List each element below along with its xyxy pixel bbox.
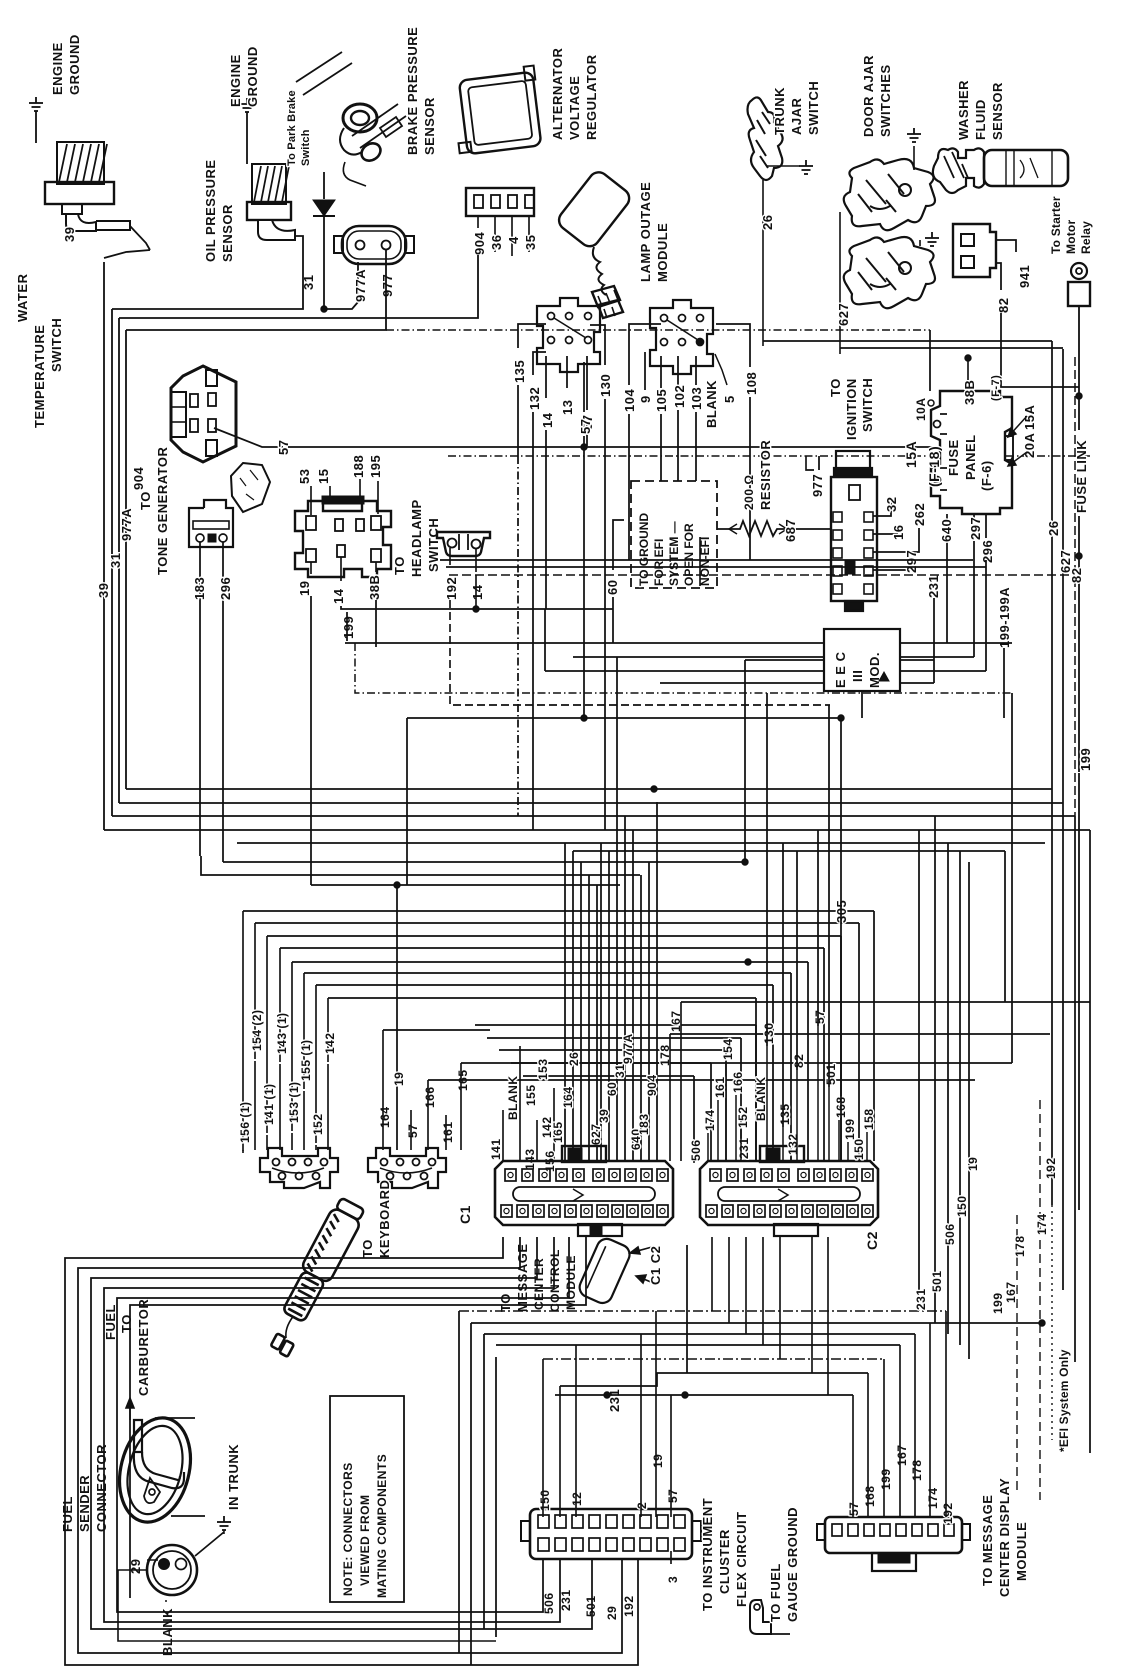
- svg-text:297: 297: [904, 550, 919, 573]
- labels 941 / 82: [996, 240, 1016, 252]
- svg-text:506: 506: [943, 1223, 957, 1245]
- door ajar switch 2: [844, 237, 935, 308]
- fuel gauge ground symbol: [750, 1600, 771, 1634]
- svg-text:15A: 15A: [903, 441, 919, 468]
- EEC wires: [745, 659, 824, 661]
- svg-text:TO MESSAGE: TO MESSAGE: [980, 1495, 995, 1586]
- svg-text:IGNITION: IGNITION: [844, 378, 859, 440]
- lamp outage module: [555, 168, 633, 250]
- svg-text:FUEL: FUEL: [60, 1496, 75, 1532]
- center vertical bundle: [564, 843, 566, 1161]
- connector C1: [495, 1161, 673, 1225]
- svg-text:192: 192: [444, 577, 459, 600]
- svg-text:199-199A: 199-199A: [997, 587, 1012, 648]
- svg-text:150: 150: [538, 1489, 552, 1511]
- C1/C2 pointer wedge: [576, 1236, 632, 1306]
- svg-text:39: 39: [62, 227, 77, 242]
- svg-text:19: 19: [297, 581, 312, 596]
- svg-text:977: 977: [810, 474, 825, 497]
- wire 38B down: [375, 600, 377, 647]
- washer connector 2-pin: [953, 224, 996, 277]
- svg-text:296: 296: [980, 540, 995, 563]
- mesh horizontals mid: [201, 856, 640, 875]
- svg-text:KEYBOARD: KEYBOARD: [377, 1180, 392, 1258]
- svg-text:155 (1): 155 (1): [299, 1039, 313, 1081]
- svg-text:192: 192: [1044, 1157, 1058, 1179]
- water temperature switch sensor body: [45, 142, 130, 231]
- diode (park brake): [323, 172, 325, 199]
- door ajar switch 1: [844, 159, 935, 230]
- keyboard cable: [261, 1196, 367, 1358]
- svg-text:FUSE LINK: FUSE LINK: [1074, 440, 1089, 513]
- svg-text:14: 14: [331, 588, 346, 604]
- svg-text:904: 904: [472, 232, 487, 255]
- svg-text:*EFI System Only: *EFI System Only: [1057, 1349, 1071, 1452]
- svg-text:31: 31: [108, 553, 123, 568]
- svg-text:39: 39: [597, 1109, 611, 1123]
- svg-text:BLANK: BLANK: [160, 1608, 175, 1656]
- svg-text:3: 3: [666, 1576, 680, 1583]
- svg-text:977A: 977A: [353, 269, 368, 302]
- svg-text:WATER: WATER: [15, 273, 30, 322]
- 231 vertical link: [686, 1245, 688, 1373]
- svg-text:501: 501: [584, 1595, 598, 1617]
- svg-text:14: 14: [470, 584, 485, 600]
- svg-text:199: 199: [991, 1292, 1005, 1314]
- svg-text:57: 57: [847, 1502, 861, 1516]
- svg-text:To Park Brake: To Park Brake: [286, 90, 298, 166]
- svg-text:26: 26: [1046, 521, 1061, 536]
- svg-text:904: 904: [645, 1074, 659, 1096]
- fuel sender wire to right: [118, 1570, 496, 1641]
- svg-text:FUSE: FUSE: [946, 439, 961, 476]
- EEC III module: [824, 629, 900, 691]
- fuse link component: [1071, 263, 1087, 279]
- svg-text:TO: TO: [119, 1314, 134, 1333]
- svg-text:167: 167: [1004, 1281, 1018, 1303]
- svg-text:135: 135: [778, 1103, 792, 1125]
- wire 977: [126, 250, 386, 330]
- labels 53 15 188 195: [310, 486, 312, 515]
- junction dot 14: [473, 606, 479, 612]
- svg-text:Relay: Relay: [1079, 221, 1093, 254]
- fuse panel body: [931, 391, 1012, 514]
- wire 19 down: [310, 596, 312, 885]
- svg-text:102: 102: [672, 385, 687, 408]
- svg-text:153 (1): 153 (1): [287, 1081, 301, 1123]
- svg-text:501: 501: [930, 1270, 944, 1292]
- svg-text:199: 199: [843, 1118, 857, 1140]
- labels 904 36 4 35: [477, 216, 479, 228]
- ground: [799, 160, 813, 174]
- alternator connector 4-pin: [466, 188, 534, 216]
- ignition switch connector: [831, 451, 877, 611]
- svg-text:WASHER: WASHER: [956, 80, 971, 140]
- svg-text:ENGINE: ENGINE: [228, 54, 243, 107]
- C2 bottoms down to rows: [711, 1237, 713, 1311]
- svg-text:130: 130: [762, 1022, 776, 1044]
- svg-text:OPEN FOR: OPEN FOR: [682, 523, 696, 586]
- fuel pipe: [134, 1420, 142, 1452]
- relay connector 1: [537, 298, 600, 372]
- wire 26/627/82 horizontals to right edge: [440, 559, 973, 561]
- dashed box: to ground for EFI system: [631, 481, 717, 588]
- wire 904: [119, 255, 478, 318]
- right edge risers down: [1089, 830, 1091, 1453]
- svg-text:31: 31: [613, 1064, 627, 1078]
- svg-text:Motor: Motor: [1064, 220, 1078, 254]
- svg-text:60: 60: [605, 580, 620, 595]
- svg-text:192: 192: [941, 1502, 955, 1524]
- label 3 stub: [670, 1551, 672, 1564]
- svg-text:SENSOR: SENSOR: [220, 204, 235, 262]
- svg-text:TO: TO: [828, 378, 843, 397]
- svg-text:16: 16: [891, 525, 906, 540]
- svg-text:DOOR AJAR: DOOR AJAR: [861, 55, 876, 137]
- svg-text:AJAR: AJAR: [789, 97, 804, 135]
- svg-text:130: 130: [598, 374, 613, 397]
- svg-text:161: 161: [713, 1076, 727, 1098]
- staircase left drops to keyboard connectors: [242, 911, 244, 1151]
- hexagon blob: [231, 463, 270, 512]
- tone generator 2-pin connector: [189, 500, 233, 547]
- svg-text:174: 174: [703, 1109, 717, 1131]
- svg-text:ENGINE: ENGINE: [50, 42, 65, 95]
- svg-text:(F-7): (F-7): [990, 375, 1002, 401]
- svg-text:38B: 38B: [367, 575, 382, 600]
- keyboard conn2 wire drops: [382, 1030, 384, 1150]
- svg-text:296: 296: [218, 577, 233, 600]
- svg-text:26: 26: [567, 1052, 581, 1066]
- svg-text:132: 132: [527, 387, 542, 410]
- svg-text:154 (2): 154 (2): [250, 1009, 264, 1051]
- svg-text:231: 231: [737, 1137, 751, 1159]
- relay 2 labels 104 9 105 102 103 BLANK 5 108: [629, 324, 661, 385]
- wire bus: left risers turning right: [104, 829, 1090, 831]
- svg-text:156 (1): 156 (1): [238, 1101, 252, 1143]
- svg-text:BLANK: BLANK: [506, 1076, 520, 1121]
- wire 31: [295, 236, 303, 295]
- wire 199 dashdot: [346, 612, 348, 641]
- right labeled long verticals: [918, 830, 920, 1311]
- svg-text:104: 104: [622, 389, 637, 412]
- ground (trunk ajar): [766, 165, 800, 167]
- relay connector 2: [650, 300, 713, 374]
- connector C2: [700, 1161, 878, 1225]
- svg-text:231: 231: [914, 1288, 928, 1310]
- dots bottom rows: [1039, 1320, 1045, 1326]
- svg-text:5: 5: [722, 395, 737, 403]
- oil pressure sensor body: [247, 164, 295, 240]
- svg-text:165: 165: [551, 1121, 565, 1143]
- svg-text:SENDER: SENDER: [77, 1475, 92, 1532]
- svg-text:2: 2: [635, 1502, 649, 1509]
- ground (door 1): [913, 146, 915, 170]
- svg-text:BLANK: BLANK: [704, 380, 719, 428]
- message display connector: [825, 1517, 962, 1553]
- svg-text:627: 627: [836, 303, 851, 326]
- left bus riser 39: [103, 262, 105, 830]
- svg-text:168: 168: [863, 1485, 877, 1507]
- wire 26 + label: [762, 180, 764, 346]
- svg-text:199: 199: [341, 616, 356, 639]
- svg-text:BRAKE PRESSURE: BRAKE PRESSURE: [405, 27, 420, 155]
- svg-text:178: 178: [1013, 1235, 1027, 1257]
- svg-text:29: 29: [605, 1606, 619, 1620]
- svg-text:506: 506: [689, 1139, 703, 1161]
- C1 bottom to left loop wires: [65, 1237, 638, 1665]
- row left drops: [458, 1311, 460, 1653]
- arrow up fuel: [126, 1398, 134, 1420]
- svg-text:(F-6): (F-6): [979, 460, 994, 491]
- svg-text:MOD.: MOD.: [867, 652, 882, 688]
- svg-text:CONTROL: CONTROL: [548, 1249, 562, 1312]
- alternator voltage regulator body: [450, 66, 543, 156]
- svg-text:9: 9: [638, 395, 653, 403]
- wire 14b to junction: [475, 575, 477, 609]
- svg-text:627: 627: [589, 1123, 603, 1145]
- svg-text:199: 199: [879, 1468, 893, 1490]
- svg-text:132: 132: [786, 1133, 800, 1155]
- svg-text:MATING COMPONENTS: MATING COMPONENTS: [375, 1454, 389, 1598]
- trunk ajar switch blob: [748, 97, 783, 180]
- svg-text:82: 82: [996, 298, 1011, 313]
- svg-text:CONNECTOR: CONNECTOR: [94, 1444, 109, 1532]
- svg-text:GAUGE GROUND: GAUGE GROUND: [785, 1507, 800, 1622]
- svg-text:SYSTEM —: SYSTEM —: [667, 521, 681, 586]
- svg-text:164: 164: [561, 1086, 575, 1108]
- svg-text:BLANK: BLANK: [754, 1077, 768, 1122]
- svg-text:MODULE: MODULE: [1014, 1522, 1029, 1581]
- svg-text:14: 14: [540, 412, 555, 428]
- svg-text:82: 82: [792, 1054, 806, 1068]
- svg-text:SENSOR: SENSOR: [422, 97, 437, 155]
- svg-text:Switch: Switch: [300, 129, 312, 166]
- washer fluid sensor body: [933, 148, 984, 193]
- svg-text:15: 15: [316, 469, 331, 484]
- svg-text:TEMPERATURE: TEMPERATURE: [32, 325, 47, 428]
- extra left vertical: [130, 1237, 586, 1598]
- ground: [925, 232, 939, 246]
- svg-text:E E C: E E C: [833, 651, 848, 688]
- C1 top pin wires with labels: [502, 1110, 504, 1161]
- upper staircase rows: [243, 910, 874, 912]
- svg-text:183: 183: [637, 1113, 651, 1135]
- svg-text:19: 19: [966, 1157, 980, 1171]
- junction dot wire 57: [581, 444, 587, 450]
- ground: [907, 128, 921, 142]
- svg-text:LAMP OUTAGE: LAMP OUTAGE: [638, 182, 653, 282]
- svg-text:167: 167: [895, 1444, 909, 1466]
- svg-text:26: 26: [760, 215, 775, 230]
- svg-text:MODULE: MODULE: [655, 223, 670, 282]
- svg-text:161: 161: [441, 1121, 455, 1143]
- svg-text:MODULE: MODULE: [564, 1255, 578, 1310]
- svg-text:CLUSTER: CLUSTER: [717, 1529, 732, 1594]
- svg-text:GROUND: GROUND: [67, 34, 82, 95]
- svg-text:231: 231: [559, 1589, 573, 1611]
- ground (door 2): [919, 240, 921, 246]
- svg-text:IN TRUNK: IN TRUNK: [226, 1444, 241, 1510]
- right dashed EFI verticals: [1016, 1215, 1018, 1490]
- ground: [217, 1516, 231, 1530]
- svg-text:36: 36: [489, 235, 504, 250]
- svg-text:FLEX CIRCUIT: FLEX CIRCUIT: [734, 1511, 749, 1607]
- svg-text:FOR EFI: FOR EFI: [652, 539, 666, 586]
- svg-text:FUEL: FUEL: [103, 1304, 118, 1340]
- wire to 977A pin: [324, 262, 358, 309]
- svg-text:TO INSTRUMENT: TO INSTRUMENT: [700, 1498, 715, 1611]
- svg-text:640: 640: [939, 519, 954, 542]
- svg-text:HEADLAMP: HEADLAMP: [409, 499, 424, 577]
- wires 183 296: [199, 542, 201, 856]
- svg-text:39: 39: [96, 583, 111, 598]
- svg-text:142: 142: [323, 1032, 337, 1054]
- svg-text:150: 150: [852, 1138, 866, 1160]
- svg-text:141: 141: [489, 1138, 503, 1160]
- svg-text:150: 150: [955, 1195, 969, 1217]
- wire 199 vertical from dashdot: [1011, 693, 1013, 1063]
- svg-text:TO FUEL: TO FUEL: [768, 1563, 783, 1622]
- svg-text:FLUID: FLUID: [973, 99, 988, 140]
- label 199 right edge: [1076, 553, 1082, 559]
- svg-text:53: 53: [297, 469, 312, 484]
- svg-text:CENTER DISPLAY: CENTER DISPLAY: [997, 1478, 1012, 1597]
- junction dot fuse link: [1076, 393, 1082, 399]
- svg-text:262: 262: [912, 503, 927, 526]
- svg-text:977A: 977A: [119, 508, 134, 541]
- svg-text:13: 13: [560, 400, 575, 415]
- svg-text:506: 506: [542, 1592, 556, 1614]
- wire 192 down dash: [450, 600, 830, 705]
- wire from 977 junction to ignition: [386, 329, 930, 331]
- svg-text:57: 57: [813, 1010, 827, 1024]
- svg-text:TO: TO: [498, 1293, 513, 1312]
- svg-text:941: 941: [1017, 265, 1032, 288]
- svg-text:297: 297: [968, 517, 983, 540]
- svg-text:105: 105: [654, 389, 669, 412]
- svg-text:VOLTAGE: VOLTAGE: [567, 76, 582, 140]
- svg-text:199: 199: [1078, 748, 1093, 771]
- svg-text:166: 166: [423, 1086, 437, 1108]
- svg-text:153: 153: [536, 1058, 550, 1080]
- svg-text:SWITCH: SWITCH: [860, 378, 875, 432]
- connector 192/14: [437, 532, 490, 556]
- display label risers: [852, 1395, 854, 1517]
- svg-text:NOTE: CONNECTORS: NOTE: CONNECTORS: [341, 1462, 355, 1596]
- svg-text:143 (1): 143 (1): [275, 1012, 289, 1054]
- svg-text:38B: 38B: [962, 380, 977, 405]
- wire 627 + label: [839, 212, 841, 354]
- svg-text:4: 4: [506, 236, 521, 244]
- svg-text:183: 183: [192, 577, 207, 600]
- svg-text:57: 57: [406, 1124, 420, 1138]
- svg-text:ALTERNATOR: ALTERNATOR: [550, 48, 565, 140]
- svg-text:SWITCH: SWITCH: [426, 518, 441, 572]
- svg-text:108: 108: [744, 372, 759, 395]
- wire 57 from tone generator: [214, 428, 283, 447]
- labels 19 14 38B 199: [310, 562, 312, 574]
- headlamp switch connector: [295, 501, 391, 577]
- svg-text:501: 501: [824, 1063, 838, 1085]
- svg-text:152: 152: [311, 1113, 325, 1135]
- svg-text:200 Ω: 200 Ω: [742, 475, 756, 510]
- left bus riser 31: [111, 309, 113, 816]
- svg-text:152: 152: [736, 1106, 750, 1128]
- svg-text:TO: TO: [360, 1239, 375, 1258]
- svg-text:SWITCHES: SWITCHES: [878, 64, 893, 137]
- svg-text:35: 35: [523, 235, 538, 250]
- ignition right pin wires 32 16 262 297: [873, 500, 891, 516]
- svg-text:155: 155: [524, 1084, 538, 1106]
- vertical drops from ignition/fuse area: [660, 682, 934, 684]
- svg-text:19: 19: [651, 1454, 665, 1468]
- svg-text:977: 977: [380, 274, 395, 297]
- svg-text:166: 166: [731, 1071, 745, 1093]
- svg-text:10A: 10A: [914, 397, 928, 421]
- ground: [29, 97, 43, 111]
- svg-text:C1 C2: C1 C2: [648, 1246, 663, 1285]
- lower staircase rows feeding C2: [475, 1024, 756, 1026]
- svg-text:57: 57: [578, 419, 593, 434]
- svg-text:VIEWED FROM: VIEWED FROM: [358, 1495, 372, 1587]
- svg-text:135: 135: [512, 360, 527, 383]
- wire 39 from water temp switch to left bus: [130, 226, 150, 250]
- svg-text:SENSOR: SENSOR: [990, 82, 1005, 140]
- svg-text:57: 57: [666, 1489, 680, 1503]
- svg-text:158: 158: [862, 1108, 876, 1130]
- svg-text:PANEL: PANEL: [963, 434, 978, 480]
- svg-text:174: 174: [1035, 1213, 1049, 1235]
- fuse panel bottom wires 640 297 296 231 199-199A: [946, 514, 948, 545]
- wire 14 to junction: [341, 606, 613, 609]
- svg-text:977A: 977A: [621, 1033, 635, 1064]
- svg-text:82: 82: [1069, 568, 1084, 583]
- fuel sender round connector: [147, 1545, 197, 1595]
- svg-text:To Starter: To Starter: [1049, 196, 1063, 254]
- svg-text:178: 178: [910, 1459, 924, 1481]
- svg-text:GROUND: GROUND: [245, 46, 260, 107]
- svg-text:164: 164: [378, 1106, 392, 1128]
- svg-text:188: 188: [351, 455, 366, 478]
- svg-text:192: 192: [622, 1595, 636, 1617]
- svg-text:SWITCH: SWITCH: [49, 318, 64, 372]
- svg-text:904: 904: [131, 467, 146, 490]
- svg-text:174: 174: [926, 1487, 940, 1509]
- keyboard connector B: [368, 1148, 446, 1188]
- svg-text:12: 12: [570, 1492, 584, 1506]
- svg-text:32: 32: [884, 497, 899, 512]
- instrument cluster connector: [530, 1509, 692, 1559]
- svg-text:(F-18): (F-18): [926, 446, 942, 487]
- svg-text:19: 19: [392, 1072, 406, 1086]
- relay 1 pin wires + labels 135 132 14 13 57 130: [518, 324, 546, 348]
- svg-text:TONE GENERATOR: TONE GENERATOR: [155, 447, 170, 575]
- C2 label drop wires: [693, 1161, 695, 1163]
- ground: [240, 98, 254, 112]
- svg-text:143: 143: [523, 1148, 537, 1170]
- long verticals through center to C2: [766, 693, 768, 1046]
- svg-text:231: 231: [926, 575, 941, 598]
- svg-text:III: III: [850, 670, 865, 682]
- svg-text:TRUNK: TRUNK: [772, 87, 787, 135]
- svg-text:C1: C1: [457, 1205, 473, 1224]
- svg-text:CENTER: CENTER: [532, 1258, 546, 1310]
- svg-text:RESISTOR: RESISTOR: [758, 440, 773, 510]
- junction dot diode/31: [321, 306, 327, 312]
- tone generator connector (trapezoid): [171, 366, 236, 462]
- svg-text:60: 60: [605, 1082, 619, 1096]
